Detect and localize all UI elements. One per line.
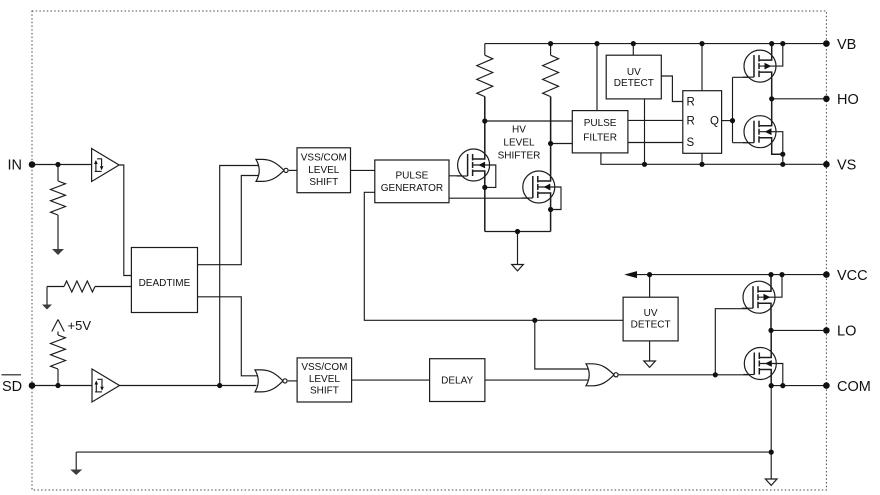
svg-text:SD: SD bbox=[2, 379, 22, 395]
svg-text:SHIFTER: SHIFTER bbox=[498, 151, 541, 162]
svg-text:LEVEL: LEVEL bbox=[309, 374, 341, 385]
svg-text:FILTER: FILTER bbox=[583, 133, 617, 144]
svg-text:VB: VB bbox=[837, 37, 856, 53]
svg-text:VSS/COM: VSS/COM bbox=[301, 362, 347, 373]
svg-text:+5V: +5V bbox=[68, 318, 92, 333]
svg-text:DETECT: DETECT bbox=[614, 78, 654, 89]
svg-text:S: S bbox=[687, 137, 695, 149]
svg-text:LEVEL: LEVEL bbox=[308, 165, 340, 176]
svg-text:LO: LO bbox=[837, 324, 856, 340]
svg-text:IN: IN bbox=[8, 158, 23, 174]
svg-text:DELAY: DELAY bbox=[441, 376, 473, 387]
svg-text:HV: HV bbox=[512, 125, 526, 136]
svg-text:DEADTIME: DEADTIME bbox=[139, 278, 191, 289]
svg-text:UV: UV bbox=[627, 67, 641, 78]
svg-text:R: R bbox=[687, 115, 695, 127]
svg-text:HO: HO bbox=[837, 92, 859, 108]
svg-text:VS: VS bbox=[837, 158, 856, 174]
svg-text:VSS/COM: VSS/COM bbox=[301, 153, 347, 164]
svg-text:PULSE: PULSE bbox=[584, 118, 617, 129]
svg-text:PULSE: PULSE bbox=[396, 171, 429, 182]
svg-text:R: R bbox=[687, 96, 695, 108]
svg-text:DETECT: DETECT bbox=[631, 320, 671, 331]
svg-text:SHIFT: SHIFT bbox=[310, 385, 339, 396]
svg-text:COM: COM bbox=[837, 379, 871, 395]
svg-text:LEVEL: LEVEL bbox=[503, 138, 535, 149]
svg-text:UV: UV bbox=[644, 308, 658, 319]
svg-text:Q: Q bbox=[710, 116, 719, 128]
svg-text:GENERATOR: GENERATOR bbox=[381, 183, 443, 194]
svg-text:SHIFT: SHIFT bbox=[309, 177, 338, 188]
svg-text:VCC: VCC bbox=[837, 268, 868, 284]
